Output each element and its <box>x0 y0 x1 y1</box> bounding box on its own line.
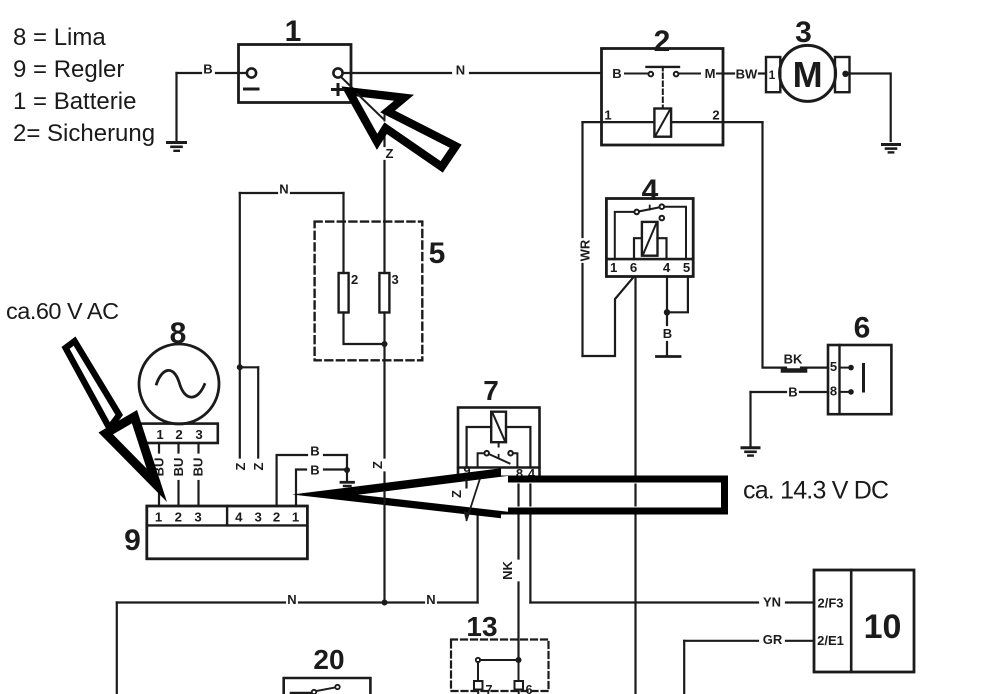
svg-text:2: 2 <box>351 272 358 287</box>
wire B to ground <box>666 342 668 355</box>
dashed actuator link <box>662 74 664 107</box>
svg-text:B: B <box>612 66 621 81</box>
svg-text:B: B <box>310 463 319 478</box>
motor right brush box <box>835 57 850 92</box>
svg-text:N: N <box>426 592 435 607</box>
node N junction <box>382 600 388 606</box>
svg-text:ca. 14.3 V DC: ca. 14.3 V DC <box>743 477 889 505</box>
svg-text:BW: BW <box>736 67 758 82</box>
wire N bottom horizontal <box>117 601 285 603</box>
switch in 20 <box>291 692 311 694</box>
svg-text:B: B <box>310 444 319 459</box>
battery plus sign <box>331 83 345 96</box>
svg-text:9: 9 <box>124 524 141 557</box>
svg-text:3: 3 <box>195 427 202 442</box>
svg-text:1: 1 <box>769 68 776 82</box>
svg-text:5: 5 <box>429 237 446 270</box>
relay 7 strip line <box>458 466 540 468</box>
wire switch2 terminal2 down right side <box>761 122 763 365</box>
wire motor to ground <box>850 74 891 142</box>
svg-text:1 = Batterie: 1 = Batterie <box>13 88 136 115</box>
wire GR <box>786 640 814 642</box>
svg-text:2: 2 <box>273 510 280 525</box>
svg-text:1: 1 <box>604 108 611 123</box>
wire NK from relay7 pin 8 <box>517 479 519 559</box>
svg-text:M: M <box>705 66 716 81</box>
ground component 6 <box>742 446 759 449</box>
wire B battery left <box>216 72 247 74</box>
svg-text:GR: GR <box>763 632 783 647</box>
component 6 box <box>828 345 891 414</box>
svg-text:3: 3 <box>194 510 201 525</box>
overlay wires through big arrow <box>385 479 636 522</box>
relay 4 coil <box>642 222 658 256</box>
svg-text:7: 7 <box>486 683 493 694</box>
wire Z vertical to fuse 3 <box>383 161 385 273</box>
node fuse junction <box>382 341 388 347</box>
svg-text:2/F3: 2/F3 <box>817 596 843 611</box>
svg-text:5: 5 <box>683 260 690 275</box>
motor M circle <box>780 45 836 101</box>
svg-text:10: 10 <box>864 608 902 646</box>
component 20 box <box>284 678 371 694</box>
relay 7 box <box>458 408 540 480</box>
relay coil in switch 2 <box>654 109 671 137</box>
wire 13 internal <box>480 659 519 661</box>
big arrow annotation (ca. 14.3 V DC) <box>292 468 728 518</box>
relay 4 coil yoke <box>634 238 642 259</box>
alternator circle <box>139 344 219 424</box>
relay 7 contact wires <box>478 453 485 467</box>
wire fuse2 bottom <box>344 313 385 345</box>
svg-text:Z: Z <box>233 462 248 470</box>
svg-text:BU: BU <box>191 458 206 477</box>
svg-text:1: 1 <box>156 427 163 442</box>
stub below relay7 pin 9 <box>465 479 467 489</box>
node jog dot <box>237 364 243 370</box>
svg-text:13: 13 <box>466 611 497 642</box>
component 10 box <box>814 570 914 672</box>
wire BW <box>723 72 734 74</box>
battery plus terminal <box>333 68 342 77</box>
svg-text:9 = Regler: 9 = Regler <box>13 56 124 83</box>
svg-text:2= Sicherung: 2= Sicherung <box>13 120 155 147</box>
svg-text:N: N <box>287 592 296 607</box>
relay 7 coil yoke <box>467 427 492 468</box>
fuse F3 <box>379 273 389 313</box>
svg-text:2: 2 <box>654 25 671 58</box>
relay 7 coil <box>491 412 506 443</box>
battery 1 box <box>239 45 352 103</box>
regulator strip line <box>147 524 308 526</box>
wire B of component 6 <box>800 391 828 393</box>
svg-text:NK: NK <box>500 561 515 580</box>
svg-text:3: 3 <box>392 272 399 287</box>
relay 4 contact wires <box>615 212 635 259</box>
wire WR bottom jog to relay 4 terminal 6 <box>583 277 635 357</box>
svg-text:N: N <box>279 182 288 197</box>
overlay diagonal through cursor arrow <box>357 94 385 122</box>
node B junction <box>664 309 670 315</box>
svg-text:6: 6 <box>630 260 637 275</box>
relay 4 contacts <box>634 210 639 215</box>
svg-text:Z: Z <box>370 461 385 469</box>
svg-text:3: 3 <box>255 510 262 525</box>
wire left vertical to regulator 4 <box>239 193 241 458</box>
svg-text:6: 6 <box>854 312 871 345</box>
component 6 divider <box>838 345 840 414</box>
wire relay4 terminal 4 to ground <box>666 277 668 326</box>
node B ground junction <box>344 467 350 473</box>
svg-text:2/E1: 2/E1 <box>817 633 844 648</box>
connector bar under BK wire <box>783 368 805 373</box>
svg-text:7: 7 <box>483 375 499 406</box>
diagonal annotation line below relay 7 <box>466 479 480 522</box>
wires BU <box>158 443 160 453</box>
wire YN horizontal <box>530 601 758 603</box>
sine wave <box>157 370 205 397</box>
wire Z from battery plus diagonal <box>341 77 385 120</box>
relay 7 contacts <box>484 451 489 456</box>
svg-text:4: 4 <box>663 260 671 275</box>
cursor arrow annotation at battery plus <box>341 86 461 172</box>
wire Z long vertical <box>383 313 385 458</box>
wire relay4 terminal 6 long vertical <box>634 277 636 694</box>
svg-text:BK: BK <box>784 352 803 367</box>
wire relay7 pin 4 down <box>529 479 531 603</box>
svg-text:2: 2 <box>712 108 719 123</box>
svg-text:WR: WR <box>578 239 593 261</box>
wire terminal1 row <box>583 121 655 123</box>
svg-text:1: 1 <box>610 260 617 275</box>
svg-text:8 = Lima: 8 = Lima <box>13 24 106 51</box>
svg-text:20: 20 <box>313 644 344 675</box>
relay 4 strip line <box>606 258 693 261</box>
motor left brush box <box>766 57 780 92</box>
battery minus terminal <box>247 68 256 77</box>
small triangle at diagonal end <box>464 511 469 522</box>
relay 4 box <box>606 199 693 277</box>
fuse F2 <box>339 273 349 313</box>
svg-text:4: 4 <box>235 510 243 525</box>
lightning bolt annotation (ca.60 V AC) <box>62 337 168 503</box>
svg-text:1: 1 <box>155 510 162 525</box>
wire BK horizontal <box>763 367 787 369</box>
connector 6 of 13 <box>518 663 520 681</box>
wire terminal2 row <box>671 121 762 123</box>
svg-text:1: 1 <box>285 15 302 48</box>
connector 7 of 13 <box>477 662 479 681</box>
svg-text:B: B <box>788 385 797 400</box>
ground battery left <box>168 141 186 144</box>
regulator 9 box <box>147 506 308 559</box>
svg-text:BU: BU <box>171 458 186 477</box>
legend text <box>13 24 155 147</box>
svg-text:8: 8 <box>830 384 837 399</box>
svg-text:4: 4 <box>642 174 659 207</box>
svg-text:2: 2 <box>175 427 182 442</box>
wire N corner up to relay7 <box>477 513 479 603</box>
svg-text:6: 6 <box>526 683 533 694</box>
svg-text:2: 2 <box>175 510 182 525</box>
node motor output <box>842 71 848 77</box>
svg-text:1: 1 <box>292 510 299 525</box>
svg-text:Z: Z <box>386 146 394 161</box>
wire N upper horizontal <box>240 192 277 194</box>
ground B wires <box>341 481 354 484</box>
fuse box 5 dashed <box>315 222 423 361</box>
component 13 dashed box <box>451 640 549 692</box>
svg-text:M: M <box>793 54 823 95</box>
svg-text:Z: Z <box>251 462 266 470</box>
wire B regulator pin1 <box>296 470 306 507</box>
svg-text:Z: Z <box>449 490 464 498</box>
svg-text:5: 5 <box>830 359 837 374</box>
svg-text:YN: YN <box>763 594 781 609</box>
wire B regulator pin2 <box>277 455 307 506</box>
wire to fuse 2 <box>342 193 344 273</box>
ground motor <box>883 143 900 146</box>
switch contacts <box>625 73 648 75</box>
component 10 divider <box>850 570 853 672</box>
svg-text:B: B <box>663 326 672 341</box>
regulator divider <box>226 506 228 525</box>
svg-text:B: B <box>203 62 212 77</box>
switch bar in 6 <box>862 365 865 392</box>
wire jog <box>240 366 258 368</box>
svg-text:N: N <box>456 63 465 78</box>
alternator terminal box <box>139 424 218 443</box>
wire relay4 terminal 5 <box>667 277 688 313</box>
wire WR vertical <box>581 122 583 237</box>
wire N battery to switch <box>343 72 451 74</box>
svg-text:ca.60 V AC: ca.60 V AC <box>6 298 119 324</box>
switch 2 box <box>602 49 724 146</box>
ground T relay4 <box>657 355 681 358</box>
node 13 junction <box>516 657 522 663</box>
